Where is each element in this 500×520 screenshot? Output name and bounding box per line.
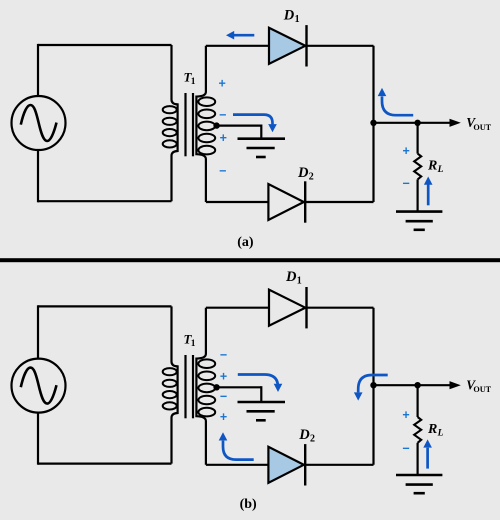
svg-text:OUT: OUT xyxy=(473,123,491,132)
svg-text:OUT: OUT xyxy=(473,385,491,394)
svg-text:+: + xyxy=(403,144,410,158)
svg-text:−: − xyxy=(220,348,227,362)
svg-text:−: − xyxy=(219,108,226,122)
svg-text:+: + xyxy=(220,370,227,384)
svg-text:−: − xyxy=(402,442,409,456)
svg-text:(a): (a) xyxy=(237,235,254,250)
svg-text:D: D xyxy=(283,7,295,23)
svg-text:L: L xyxy=(437,429,444,439)
svg-text:D: D xyxy=(298,427,310,443)
svg-text:−: − xyxy=(220,389,227,403)
svg-text:R: R xyxy=(427,159,437,174)
svg-text:2: 2 xyxy=(310,434,315,445)
svg-text:1: 1 xyxy=(191,77,196,87)
svg-text:+: + xyxy=(402,408,409,422)
svg-text:−: − xyxy=(219,164,226,178)
svg-text:1: 1 xyxy=(295,14,300,25)
svg-text:+: + xyxy=(220,131,227,145)
svg-text:(b): (b) xyxy=(240,497,257,512)
svg-text:+: + xyxy=(219,77,226,91)
svg-text:R: R xyxy=(427,422,437,437)
svg-text:2: 2 xyxy=(309,172,314,183)
svg-text:+: + xyxy=(220,410,227,424)
svg-text:L: L xyxy=(437,165,444,175)
svg-text:1: 1 xyxy=(297,276,302,287)
svg-text:1: 1 xyxy=(191,339,196,349)
svg-text:D: D xyxy=(297,165,309,181)
svg-text:D: D xyxy=(285,269,297,285)
svg-text:−: − xyxy=(403,177,410,191)
